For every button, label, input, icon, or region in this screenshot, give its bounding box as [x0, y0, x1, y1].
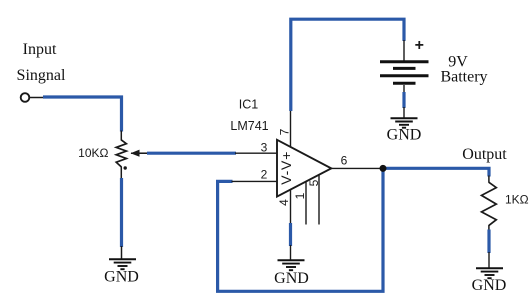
wire input to potentiometer top: [43, 97, 122, 132]
svg-text:V-V+: V-V+: [278, 151, 294, 185]
wire pin 2 lead: [232, 180, 278, 182]
svg-text:GND: GND: [274, 270, 309, 287]
svg-text:1KΩ: 1KΩ: [505, 193, 529, 207]
battery BT1 9V: [380, 62, 429, 83]
svg-text:1: 1: [293, 192, 307, 199]
svg-text:7: 7: [278, 128, 292, 135]
wire 1K top lead: [488, 176, 490, 183]
resistor R2 1K: [482, 182, 497, 225]
svg-text:Singnal: Singnal: [17, 67, 66, 84]
svg-text:GND: GND: [104, 269, 139, 286]
node Input terminal label: [17, 41, 66, 84]
wire pot top lead: [120, 131, 122, 141]
wire pin 7 lead: [290, 111, 292, 147]
wire pin 6 to junction: [331, 167, 383, 169]
svg-text:LM741: LM741: [230, 119, 268, 133]
wire battery gnd lead: [403, 107, 405, 118]
wire battery to ground: [402, 92, 405, 108]
pin 5 stub: [318, 174, 320, 224]
svg-text:6: 6: [341, 154, 348, 168]
ground GND pot: [109, 259, 136, 269]
wire 1K bottom lead: [488, 225, 490, 231]
wire battery bottom lead: [403, 85, 405, 93]
svg-text:10KΩ: 10KΩ: [78, 146, 108, 160]
op-amp U1 LM741 body: [277, 140, 331, 197]
svg-text:Battery: Battery: [440, 69, 487, 86]
svg-text:Input: Input: [23, 41, 57, 58]
wire 1K gnd lead: [488, 252, 490, 268]
svg-text:GND: GND: [472, 277, 507, 294]
svg-text:2: 2: [261, 168, 268, 182]
wire wiper to pin 3: [131, 152, 277, 154]
ground GND output: [476, 268, 503, 278]
wire pot to ground: [120, 178, 123, 247]
svg-text:IC1: IC1: [239, 98, 259, 112]
wire 1K to ground: [487, 230, 490, 254]
wire pin 4 gnd lead: [290, 245, 292, 260]
ground GND battery: [391, 118, 418, 128]
wire input terminal lead: [30, 97, 44, 99]
pin 1 stub: [305, 181, 307, 224]
wire pin 4 lead: [290, 189, 292, 224]
svg-text:4: 4: [277, 199, 291, 206]
wire pot gnd lead: [121, 246, 123, 259]
ground GND op-amp: [278, 260, 305, 270]
resistor R1 10K potentiometer body: [116, 140, 126, 167]
svg-text:Output: Output: [462, 146, 507, 163]
svg-text:3: 3: [261, 141, 268, 155]
label 9V Battery: [440, 54, 487, 86]
node output junction: [380, 165, 387, 172]
resistor R1 wiper arrow: [124, 150, 149, 170]
node Input terminal: [21, 93, 30, 102]
svg-text:+: +: [415, 37, 424, 54]
wire feedback junction to pin 2: [218, 169, 383, 291]
wire pin 7 to battery positive rail: [291, 19, 404, 111]
svg-text:GND: GND: [387, 126, 422, 143]
wire pin 4 to ground: [289, 223, 292, 246]
wire pot bottom lead: [120, 167, 122, 180]
wire junction to output resistor: [383, 168, 489, 176]
wire battery top lead: [403, 40, 405, 61]
